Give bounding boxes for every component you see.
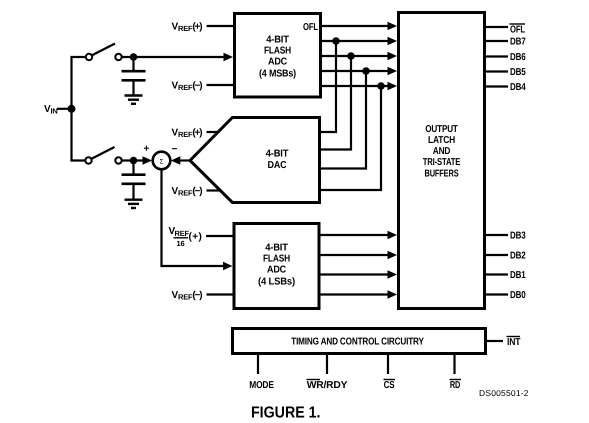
pin MODE stub xyxy=(257,354,259,374)
wire summing junction to ADC2 input xyxy=(162,169,233,270)
node VIN junction xyxy=(68,105,76,113)
node C1 junction xyxy=(130,53,138,61)
ground GND1 xyxy=(125,96,143,104)
svg-text:TRI-STATE: TRI-STATE xyxy=(423,157,461,168)
svg-text:DB4: DB4 xyxy=(510,82,526,93)
block U2: OUTPUT LATCH AND TRI-STATE BUFFERS xyxy=(399,13,485,309)
svg-text:4-BIT: 4-BIT xyxy=(265,243,288,254)
wire DAC output to summing junction xyxy=(171,156,190,165)
wire VIN vertical bus xyxy=(72,57,87,161)
svg-text:4-BIT: 4-BIT xyxy=(266,35,289,46)
svg-text:VREF( − ): VREF( − ) xyxy=(172,81,203,93)
block ADC2: 4-BIT FLASH ADC (4 LSBs) xyxy=(234,224,319,309)
svg-text:VREF( − ): VREF( − ) xyxy=(172,290,203,302)
wire bit D1 from ADC2 to latch xyxy=(320,270,398,279)
svg-text:MODE: MODE xyxy=(249,380,274,391)
pin DB0 stub xyxy=(486,293,508,295)
svg-text:VREF( − ): VREF( − ) xyxy=(172,186,203,198)
svg-text:DAC: DAC xyxy=(268,160,287,171)
wire bit D3 from ADC2 to latch xyxy=(320,231,398,240)
pin DB4 stub xyxy=(486,85,508,87)
wire bit D2 from ADC2 to latch xyxy=(320,251,398,260)
svg-text:OFL: OFL xyxy=(303,22,318,33)
svg-text:DB7: DB7 xyxy=(510,37,526,48)
svg-text:OFL: OFL xyxy=(510,25,525,36)
svg-text:Σ: Σ xyxy=(159,159,163,166)
wire D4 to DAC input xyxy=(320,86,381,190)
svg-text:WR/RDY: WR/RDY xyxy=(307,380,348,391)
svg-text:(4 LSBs): (4 LSBs) xyxy=(258,277,295,288)
svg-text:CS: CS xyxy=(384,380,395,391)
pin DB3 stub xyxy=(486,234,508,236)
pin VREF(-) of ADC1 xyxy=(172,81,234,93)
wire VIN to junction xyxy=(57,108,72,110)
svg-text:VREF( + ): VREF( + ) xyxy=(172,22,203,34)
svg-text:( + ): ( + ) xyxy=(189,232,202,243)
pin RD stub xyxy=(453,354,455,374)
pin WR/RDY label xyxy=(307,380,348,392)
svg-text:+: + xyxy=(144,144,150,155)
svg-text:LATCH: LATCH xyxy=(428,135,455,146)
pin OFL output label xyxy=(510,24,526,36)
svg-text:BUFFERS: BUFFERS xyxy=(425,169,459,180)
wire bit D0 from ADC2 to latch xyxy=(320,290,398,299)
svg-text:FLASH: FLASH xyxy=(264,46,291,57)
wire D5 to DAC input xyxy=(320,71,366,169)
svg-text:TIMING AND CONTROL CIRCUITRY: TIMING AND CONTROL CIRCUITRY xyxy=(291,337,424,348)
svg-text:DB6: DB6 xyxy=(510,52,526,63)
wire bit D5 from ADC1 to latch xyxy=(321,67,397,76)
node C2 junction xyxy=(130,157,138,165)
svg-text:AND: AND xyxy=(433,146,451,157)
svg-text:16: 16 xyxy=(177,239,185,248)
capacitor C2 xyxy=(122,161,146,199)
node junction D4 xyxy=(377,82,385,90)
pin INT stub xyxy=(487,340,503,342)
svg-text:DB3: DB3 xyxy=(510,231,526,242)
pin VREF/16(+) of ADC2 xyxy=(169,226,233,248)
switch S2 xyxy=(85,147,121,164)
pin WR/RDY stub xyxy=(326,354,328,374)
pin CS label xyxy=(384,380,396,392)
switch S1 xyxy=(86,44,122,61)
wire D7 to DAC input xyxy=(320,41,336,132)
pin RD label xyxy=(450,380,462,392)
svg-text:OUTPUT: OUTPUT xyxy=(425,124,458,135)
svg-text:−: − xyxy=(172,144,178,155)
pin VREF(+) of ADC1 xyxy=(172,22,234,34)
svg-text:INT: INT xyxy=(507,337,520,348)
svg-text:DB5: DB5 xyxy=(510,67,526,78)
capacitor C1 xyxy=(122,57,146,95)
pin INT label xyxy=(507,337,521,349)
pin DB5 stub xyxy=(486,70,508,72)
svg-text:FLASH: FLASH xyxy=(263,254,290,265)
pin VREF(+) of DAC1 xyxy=(172,128,219,140)
svg-text:ADC: ADC xyxy=(267,265,286,276)
ground GND2 xyxy=(125,200,143,208)
pin OFL output stub xyxy=(486,26,508,28)
pin CS stub xyxy=(387,354,389,374)
svg-text:DB2: DB2 xyxy=(510,251,526,262)
pin VREF(-) of DAC1 xyxy=(172,186,220,198)
block U4: TIMING AND CONTROL CIRCUITRY xyxy=(233,329,486,354)
svg-text:(4 MSBs): (4 MSBs) xyxy=(259,69,296,80)
wire D6 to DAC input xyxy=(320,56,351,150)
pin DB2 stub xyxy=(486,254,508,256)
pin DB1 stub xyxy=(486,273,508,275)
node junction D5 xyxy=(362,67,370,75)
wire S1 to ADC1 input xyxy=(122,53,233,62)
svg-text:REF: REF xyxy=(175,229,190,238)
svg-text:DB1: DB1 xyxy=(510,270,526,281)
wire bit D7 from ADC1 to latch xyxy=(321,37,397,46)
node junction D6 xyxy=(347,52,355,60)
svg-text:RD: RD xyxy=(450,380,460,391)
svg-text:DS005501-2: DS005501-2 xyxy=(479,388,529,398)
svg-text:VIN: VIN xyxy=(44,104,58,116)
svg-text:FIGURE 1.: FIGURE 1. xyxy=(251,405,321,422)
svg-text:VREF( + ): VREF( + ) xyxy=(172,128,203,140)
node junction D7 xyxy=(332,37,340,45)
pin DB6 stub xyxy=(486,55,508,57)
pin VREF(-) of ADC2 xyxy=(172,290,233,302)
wire S2 to summing junction xyxy=(122,156,152,165)
summing junction U3 xyxy=(153,152,171,170)
wire bit D4 from ADC1 to latch xyxy=(321,82,397,91)
wire bit D6 from ADC1 to latch xyxy=(321,52,397,61)
svg-text:4-BIT: 4-BIT xyxy=(266,149,289,160)
pin DB7 stub xyxy=(486,40,508,42)
svg-text:ADC: ADC xyxy=(268,57,287,68)
svg-text:DB0: DB0 xyxy=(510,290,526,301)
block DAC1: 4-BIT DAC xyxy=(190,118,320,203)
wire OFL from ADC1 to latch xyxy=(321,22,397,31)
block ADC1: 4-BIT FLASH ADC (4 MSBs) xyxy=(235,14,321,98)
